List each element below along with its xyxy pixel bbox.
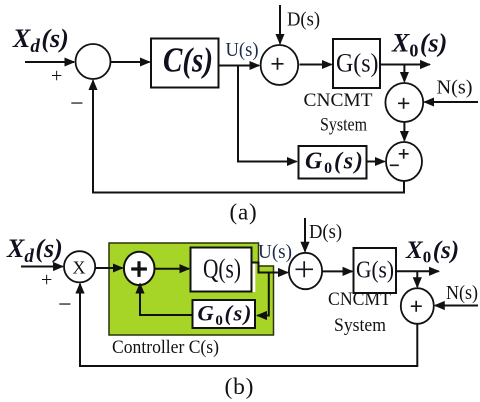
summing junction S1 (a) bbox=[76, 44, 111, 79]
wire Q(s) output U(s) to summing junction S6 bbox=[252, 263, 288, 273]
wire S2 to block G(s) bbox=[300, 64, 332, 66]
svg-text:−: − bbox=[70, 91, 84, 117]
svg-text:G(s): G(s) bbox=[356, 258, 394, 284]
wire N(s) into S7 bbox=[435, 305, 478, 307]
svg-text:CNCMT: CNCMT bbox=[304, 90, 373, 111]
wire G0(s) to S4 bbox=[367, 161, 385, 163]
label minus sign at S1 feedback bbox=[70, 91, 84, 117]
label D(s) (a) bbox=[287, 9, 320, 31]
svg-text:+: + bbox=[41, 269, 52, 291]
wire X to summing junction S5 bbox=[95, 267, 122, 269]
block G(s) (b) bbox=[354, 248, 397, 293]
svg-text:X: X bbox=[73, 258, 86, 278]
svg-text:System: System bbox=[320, 115, 367, 136]
svg-text:(a): (a) bbox=[230, 200, 258, 225]
label Controller C(s) bbox=[112, 337, 219, 358]
label plus sign at S1 input bbox=[51, 65, 62, 87]
label U(s) bbox=[226, 39, 259, 61]
label plus sign at X input bbox=[41, 269, 52, 291]
wire feedback S7 to X (b) bbox=[80, 284, 417, 366]
label (a) bbox=[230, 200, 258, 225]
svg-text:Xd(s): Xd(s) bbox=[6, 234, 63, 267]
wire branch U(s) down into G0(s) (b) bbox=[257, 273, 269, 316]
svg-text:G0(s): G0(s) bbox=[198, 301, 254, 330]
wire input arrow into multiplier X bbox=[21, 266, 63, 268]
svg-text:X0(s): X0(s) bbox=[391, 29, 447, 61]
label N(s) (a) bbox=[437, 77, 473, 99]
wire G(s) output arrow (a) bbox=[380, 64, 430, 66]
wire branch U(s) down to G0(s) bbox=[238, 66, 297, 162]
wire branch down into summing junction S7 bbox=[416, 271, 418, 287]
wire branch X0 down into summing junction S3 bbox=[403, 65, 405, 82]
wire S3 down into summing junction S4 bbox=[403, 122, 405, 141]
svg-text:U(s): U(s) bbox=[226, 39, 259, 61]
block Q(s) bbox=[191, 248, 256, 293]
wire S1 to block C(s) bbox=[111, 61, 150, 63]
svg-text:N(s): N(s) bbox=[446, 282, 478, 304]
summing junction S6 with plus bbox=[289, 253, 322, 289]
svg-text:Q(s): Q(s) bbox=[203, 254, 241, 284]
svg-text:+: + bbox=[51, 65, 62, 87]
svg-text:System: System bbox=[334, 315, 386, 336]
label minus sign at X feedback bbox=[58, 292, 72, 318]
wire S6 to block G(s) (b) bbox=[322, 270, 352, 272]
wire S5 to block Q(s) bbox=[155, 268, 190, 270]
block C(s) bbox=[151, 39, 219, 88]
svg-text:U(s): U(s) bbox=[258, 241, 292, 263]
svg-text:−: − bbox=[58, 292, 72, 318]
junction X circle bbox=[64, 251, 95, 282]
summing junction S3 with plus (noise adder) bbox=[385, 83, 423, 122]
label U(s) (b) bbox=[258, 241, 292, 263]
label CNCMT System (a) bbox=[304, 90, 373, 136]
svg-text:Xd(s): Xd(s) bbox=[12, 24, 69, 57]
label CNCMT System (b) bbox=[328, 289, 391, 336]
wire D(s) into S2 bbox=[279, 5, 281, 44]
svg-text:CNCMT: CNCMT bbox=[328, 289, 391, 310]
summing junction S4 with plus and minus bbox=[386, 142, 422, 181]
label N(s) (b) bbox=[446, 282, 478, 304]
svg-text:D(s): D(s) bbox=[287, 9, 320, 31]
summing junction S7 with plus (noise adder b) bbox=[401, 288, 434, 324]
block G(s) (a) bbox=[333, 39, 380, 88]
wire C(s) to summing junction S2 bbox=[219, 65, 260, 67]
label D(s) (b) bbox=[309, 221, 342, 243]
wire feedback G0 to S5 bbox=[140, 284, 193, 315]
wire G(s) output arrow (b) bbox=[396, 270, 439, 272]
label Xd(s) input (b) bbox=[6, 234, 63, 267]
wire feedback S4 to S1 (a) bbox=[93, 81, 404, 193]
svg-text:D(s): D(s) bbox=[309, 221, 342, 243]
svg-text:N(s): N(s) bbox=[437, 77, 473, 99]
svg-text:Controller C(s): Controller C(s) bbox=[112, 337, 219, 358]
label X0(s) (a) bbox=[391, 29, 447, 61]
svg-text:G0(s): G0(s) bbox=[305, 149, 365, 178]
wire N(s) into S3 bbox=[425, 101, 479, 103]
svg-text:G(s): G(s) bbox=[336, 49, 379, 78]
label (b) bbox=[225, 374, 255, 400]
svg-text:X0(s): X0(s) bbox=[405, 237, 459, 267]
wire input arrow into summing junction S1 bbox=[25, 61, 74, 63]
label X0(s) (b) bbox=[405, 237, 459, 267]
green controller box bbox=[109, 243, 274, 335]
summing junction S5 bold plus bbox=[124, 252, 155, 285]
block G0(s) (a) bbox=[299, 146, 367, 179]
svg-text:C(s): C(s) bbox=[163, 41, 213, 80]
wire D(s) into S6 bbox=[304, 218, 306, 251]
block G0(s) (b) bbox=[193, 300, 256, 329]
label Xd(s) input (a) bbox=[12, 24, 69, 57]
svg-text:(b): (b) bbox=[225, 374, 255, 400]
summing junction S2 with plus bbox=[261, 45, 299, 85]
